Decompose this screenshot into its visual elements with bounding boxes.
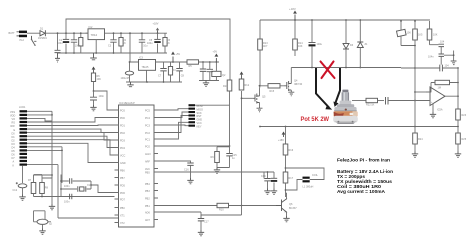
ground GND3 <box>203 81 209 87</box>
capacitor C8 <box>176 62 184 82</box>
diode D1 1N5819 <box>38 28 47 40</box>
svg-text:PB2: PB2 <box>145 198 150 201</box>
wire MCU to damping caps <box>158 172 264 179</box>
ground GND0 <box>55 53 60 62</box>
ground GND18 <box>288 92 294 96</box>
svg-text:PD1: PD1 <box>120 125 125 128</box>
junction dots input rail <box>65 32 143 54</box>
capacitor C24 series <box>440 65 449 72</box>
svg-text:XT1: XT1 <box>120 215 125 218</box>
crystal X1 <box>61 184 91 192</box>
svg-text:Pot 5K 2W: Pot 5K 2W <box>301 116 330 123</box>
capacitor C4 <box>139 33 148 53</box>
svg-text:PB7: PB7 <box>120 177 125 180</box>
resistor R13 <box>258 39 268 89</box>
ground GND6 <box>49 204 55 210</box>
ground GND8 <box>214 168 220 174</box>
svg-text:ARF: ARF <box>145 161 150 164</box>
svg-text:100u/25: 100u/25 <box>121 77 131 80</box>
node +5V reset pullup <box>92 67 96 74</box>
wire coil feed loop <box>286 168 325 180</box>
svg-text:R25: R25 <box>462 138 467 141</box>
node +18V flag3 <box>289 7 297 21</box>
ground GND13 <box>283 216 289 222</box>
wire MCU gate drive <box>158 145 230 147</box>
wire battery to diode <box>27 32 40 34</box>
svg-text:PD0: PD0 <box>120 117 125 120</box>
svg-text:100n: 100n <box>64 185 70 188</box>
transistor Q4 mosfet IRF740 <box>284 76 303 92</box>
resistor R18 <box>397 20 415 45</box>
capacitor C2 100n <box>71 33 81 53</box>
wire to 5V regulator input <box>130 33 138 62</box>
svg-text:+18V: +18V <box>278 139 284 142</box>
wire xtal2 to MCU <box>58 165 119 218</box>
resistor R4 <box>168 62 176 82</box>
svg-text:100n: 100n <box>64 201 70 204</box>
node +5V <box>171 52 180 63</box>
ground GND9 <box>187 178 193 184</box>
ground GND11 <box>264 189 270 195</box>
ground wire of cluster <box>199 80 219 82</box>
svg-text:VSS: VSS <box>10 111 15 114</box>
ground GND10 <box>198 230 204 236</box>
capacitor C17 <box>198 219 209 231</box>
svg-text:RW: RW <box>11 125 16 128</box>
svg-text:PD6: PD6 <box>120 192 125 195</box>
svg-text:PC5: PC5 <box>145 110 150 113</box>
red cross X1 <box>321 62 335 79</box>
svg-text:104n: 104n <box>428 56 434 59</box>
svg-text:PB0: PB0 <box>120 207 125 210</box>
svg-text:PL2: PL2 <box>20 39 25 42</box>
wire coil return <box>285 180 303 191</box>
svg-text:1K: 1K <box>167 42 170 45</box>
svg-text:PD3: PD3 <box>120 140 125 143</box>
wire reset node to MCU <box>93 90 115 110</box>
svg-text:IC4 MEGA8-P: IC4 MEGA8-P <box>119 102 135 105</box>
diode D2 zener <box>357 19 368 68</box>
svg-text:R24: R24 <box>418 138 423 141</box>
svg-text:PC2: PC2 <box>145 132 150 135</box>
MCU IC4 mega8 <box>119 102 155 227</box>
transistor Q5 mosfet <box>252 89 266 108</box>
svg-text:104: 104 <box>440 41 445 44</box>
svg-text:BATT: BATT <box>9 32 16 35</box>
svg-text:10K: 10K <box>97 78 102 81</box>
connector LCD PL3 <box>10 106 27 167</box>
wire RX coupling line <box>415 67 459 69</box>
wire LCD E to MCU <box>27 129 115 132</box>
svg-text:GND: GND <box>120 162 126 165</box>
svg-text:10K: 10K <box>298 45 303 48</box>
regulator IC2 7812 <box>86 26 108 53</box>
capacitor C21 104 <box>439 41 445 55</box>
wire LCD VDD to bus <box>27 111 53 204</box>
wire LCD D5 to MCU <box>27 136 115 147</box>
capacitor C18 100u <box>309 19 323 67</box>
wire LCD backlight cap lead <box>22 166 24 183</box>
resistor R15 gate <box>259 84 284 93</box>
wire RX vertical x=414 <box>401 68 416 127</box>
ground rail <box>58 52 168 54</box>
ground GND14 <box>451 61 457 65</box>
svg-text:1K: 1K <box>123 42 126 45</box>
capacitor C10 100u <box>207 61 213 80</box>
svg-text:R12: R12 <box>245 84 250 87</box>
svg-text:L1 380uH: L1 380uH <box>303 186 314 189</box>
svg-text:PD4: PD4 <box>120 147 125 150</box>
svg-text:+5V: +5V <box>176 53 181 56</box>
wire LCD D6 to MCU <box>27 140 115 155</box>
wire op out vertical <box>457 68 459 109</box>
battery connector PL1 <box>9 31 28 43</box>
svg-text:KEY: KEY <box>197 125 202 128</box>
wire TX drain chain <box>259 20 261 39</box>
capacitor C13 series <box>61 178 91 188</box>
wire crystal net vertical <box>60 175 114 197</box>
wire long bottom rail <box>259 126 458 128</box>
wire mid vertical net <box>201 91 242 219</box>
svg-text:4K7: 4K7 <box>263 45 268 48</box>
crystal Q2 <box>212 61 226 80</box>
resistor R10 base <box>217 203 276 211</box>
label Pot 5K 2W <box>301 116 330 123</box>
photo potentiometer <box>333 90 358 124</box>
switch S1 <box>31 36 37 46</box>
ground GND2 <box>127 82 133 87</box>
note text block <box>337 157 393 195</box>
resistor R12 <box>239 79 249 90</box>
ground GND7 <box>39 229 45 235</box>
svg-text:BC337: BC337 <box>289 207 297 210</box>
svg-text:10K: 10K <box>433 34 438 37</box>
resistor R24 <box>413 127 423 152</box>
svg-text:PD5: PD5 <box>120 185 125 188</box>
wire LCD D4 to MCU <box>27 133 115 140</box>
MCU left pin stubs <box>115 110 119 223</box>
svg-text:100n: 100n <box>99 95 105 98</box>
wire +BATT rail <box>46 32 167 34</box>
wire Q5 gate from R12 line <box>241 97 253 99</box>
wire MCU to ISP 5 <box>158 122 189 139</box>
capacitor C11 reset <box>90 91 105 105</box>
svg-text:R10: R10 <box>219 209 224 212</box>
capacitor C7 <box>158 62 167 82</box>
svg-text:7812: 7812 <box>91 33 98 37</box>
capacitor C1 100u <box>57 33 69 53</box>
resistor R8 <box>34 175 115 197</box>
svg-text:C19: C19 <box>261 175 266 178</box>
svg-text:78L05: 78L05 <box>142 66 150 69</box>
svg-text:PC3: PC3 <box>145 125 150 128</box>
svg-text:1K5: 1K5 <box>418 34 423 37</box>
wire LCD K <box>27 164 58 166</box>
svg-text:R22 1K: R22 1K <box>366 104 375 107</box>
svg-text:PC4: PC4 <box>145 117 150 120</box>
svg-text:R16: R16 <box>289 149 294 152</box>
capacitor C9 <box>200 61 206 80</box>
wire TX pulse line <box>291 67 401 76</box>
svg-text:VO: VO <box>12 118 16 121</box>
svg-text:COIL: COIL <box>312 174 318 177</box>
ground GND19 <box>257 108 263 112</box>
ground flag GND1 <box>90 53 97 60</box>
svg-text:IC2: IC2 <box>89 26 94 29</box>
svg-text:LCD1: LCD1 <box>19 106 26 109</box>
svg-text:+18V: +18V <box>289 7 296 11</box>
ground GND16 <box>412 152 418 158</box>
svg-text:+18V: +18V <box>153 23 159 26</box>
svg-text:+5V: +5V <box>213 51 218 54</box>
svg-text:1M: 1M <box>438 86 441 89</box>
svg-text:PC1: PC1 <box>145 139 150 142</box>
resistor R23 <box>456 109 467 127</box>
wire RX input chain <box>352 100 366 102</box>
capacitor C22 104n <box>428 51 455 65</box>
wire MCU audio out <box>158 161 191 163</box>
svg-text:100u: 100u <box>147 42 153 45</box>
wire MCU base drive <box>158 205 217 207</box>
node flag R12 <box>240 72 244 80</box>
svg-text:104: 104 <box>445 65 450 68</box>
resistor R19 <box>413 20 423 69</box>
capacitor C0 input <box>55 32 61 52</box>
diode D3 <box>343 19 354 67</box>
svg-text:PD7: PD7 <box>120 199 125 202</box>
resistor R6 reset pullup <box>91 73 101 91</box>
resonator Q3 <box>34 211 53 229</box>
wire LCD D7 to MCU <box>27 143 115 162</box>
resistor R14 <box>293 19 303 56</box>
svg-text:100u: 100u <box>317 43 323 46</box>
ground GND12 <box>271 189 277 195</box>
MCU pin name labels <box>120 110 126 226</box>
resistor R1 <box>79 33 83 53</box>
svg-text:Avg current = 100mA: Avg current = 100mA <box>337 189 385 195</box>
resistor R5 series <box>187 60 219 68</box>
ground GND4 <box>90 105 96 111</box>
svg-text:PB6: PB6 <box>120 170 125 173</box>
svg-text:R11: R11 <box>223 85 228 88</box>
svg-text:C12: C12 <box>13 189 18 192</box>
capacitor C5 100u <box>147 33 161 53</box>
wire MCU to ISP 4 <box>158 116 189 133</box>
resistor R17 <box>283 172 293 197</box>
svg-text:PD2: PD2 <box>120 132 125 135</box>
svg-text:10K: 10K <box>407 32 412 35</box>
capacitor C14 series <box>61 194 115 204</box>
wire LCD VSS to bus <box>27 110 52 112</box>
resistor R7 contrast <box>28 175 36 197</box>
MCU right pin stubs <box>154 110 158 220</box>
svg-text:XT2: XT2 <box>120 222 125 225</box>
svg-text:AD6: AD6 <box>145 212 150 215</box>
connector ISP PL4 <box>189 104 204 128</box>
capacitor C12 backlight 10u <box>13 182 27 194</box>
node +5V flag2 <box>213 51 219 63</box>
resistor R9 gate RC <box>211 147 230 168</box>
svg-text:TX = 200pps: TX = 200pps <box>337 174 365 180</box>
capacitor C16 <box>184 163 194 178</box>
wire MCU to ISP 3 <box>158 124 189 127</box>
svg-text:IRF740: IRF740 <box>294 83 303 86</box>
wire +18V rail 2 <box>260 19 430 21</box>
connector coil PL5 <box>303 174 319 189</box>
capacitor C26 series <box>386 97 427 105</box>
wire LCD A <box>27 147 63 183</box>
svg-text:PB1: PB1 <box>145 205 150 208</box>
svg-text:C17: C17 <box>204 221 209 224</box>
wire top rail to TX <box>66 19 230 80</box>
svg-text:C16: C16 <box>184 169 189 172</box>
wire coil feed <box>285 127 287 145</box>
wire inverting input <box>415 91 426 93</box>
wire MCU to ISP 2 <box>158 112 189 118</box>
resistor R22 1K <box>366 98 384 106</box>
resistor R25 <box>456 127 467 152</box>
svg-text:FelezJoo PI - from Iran: FelezJoo PI - from Iran <box>337 157 390 163</box>
svg-text:R23: R23 <box>462 114 467 117</box>
wire pot lead left thick <box>316 68 332 110</box>
node +18V flag coil <box>278 132 285 143</box>
svg-text:IC5A: IC5A <box>437 109 443 112</box>
capacitor C3 <box>108 33 117 53</box>
svg-text:IC3: IC3 <box>139 57 144 60</box>
ground rail of 5V stage <box>126 81 182 83</box>
ground GND17 <box>455 152 461 158</box>
svg-text:AD7: AD7 <box>145 219 150 222</box>
svg-text:VCC: VCC <box>120 155 125 158</box>
op-amp IC5 <box>426 87 459 112</box>
wire LCD VO <box>27 118 52 121</box>
svg-text:PC6: PC6 <box>120 110 125 113</box>
svg-text:PB4: PB4 <box>145 183 150 186</box>
wire MCU to ISP 1 <box>158 109 189 110</box>
wire pot lead right thick <box>333 68 340 107</box>
svg-text:1N5819: 1N5819 <box>38 37 47 40</box>
transistor Q6 npn <box>276 193 297 216</box>
resistor R16 <box>283 144 293 172</box>
capacitor C20 <box>267 171 278 188</box>
capacitor C6 100u input of 78L05 <box>121 61 134 82</box>
svg-text:PB3: PB3 <box>145 190 150 193</box>
regulator IC3 78L05 <box>139 57 188 82</box>
svg-text:R17: R17 <box>289 177 294 180</box>
ground GND15 op-amp <box>430 104 436 118</box>
capacitor C19 <box>261 172 271 189</box>
resistor R21 feedback 1M <box>430 80 459 92</box>
wire sample line <box>158 212 201 219</box>
resistor R2 <box>119 33 127 53</box>
wire trimmer node <box>34 174 53 197</box>
svg-text:R15: R15 <box>270 90 275 93</box>
resistor R20 <box>427 21 438 45</box>
resistor R3 <box>163 33 171 53</box>
wire LCD RS to MCU <box>27 118 115 123</box>
svg-text:AGN: AGN <box>145 153 151 156</box>
svg-text:PC0: PC0 <box>145 146 150 149</box>
svg-text:PB5: PB5 <box>145 172 150 175</box>
capacitor C15 gate RC <box>217 146 237 168</box>
ground GND5 <box>19 195 25 201</box>
node +18V <box>153 23 160 35</box>
wire LCD RW to MCU <box>27 124 115 127</box>
resistor R11 gate pullup on x=229.5 <box>223 80 232 146</box>
wire ISP top to gate node <box>195 104 230 106</box>
